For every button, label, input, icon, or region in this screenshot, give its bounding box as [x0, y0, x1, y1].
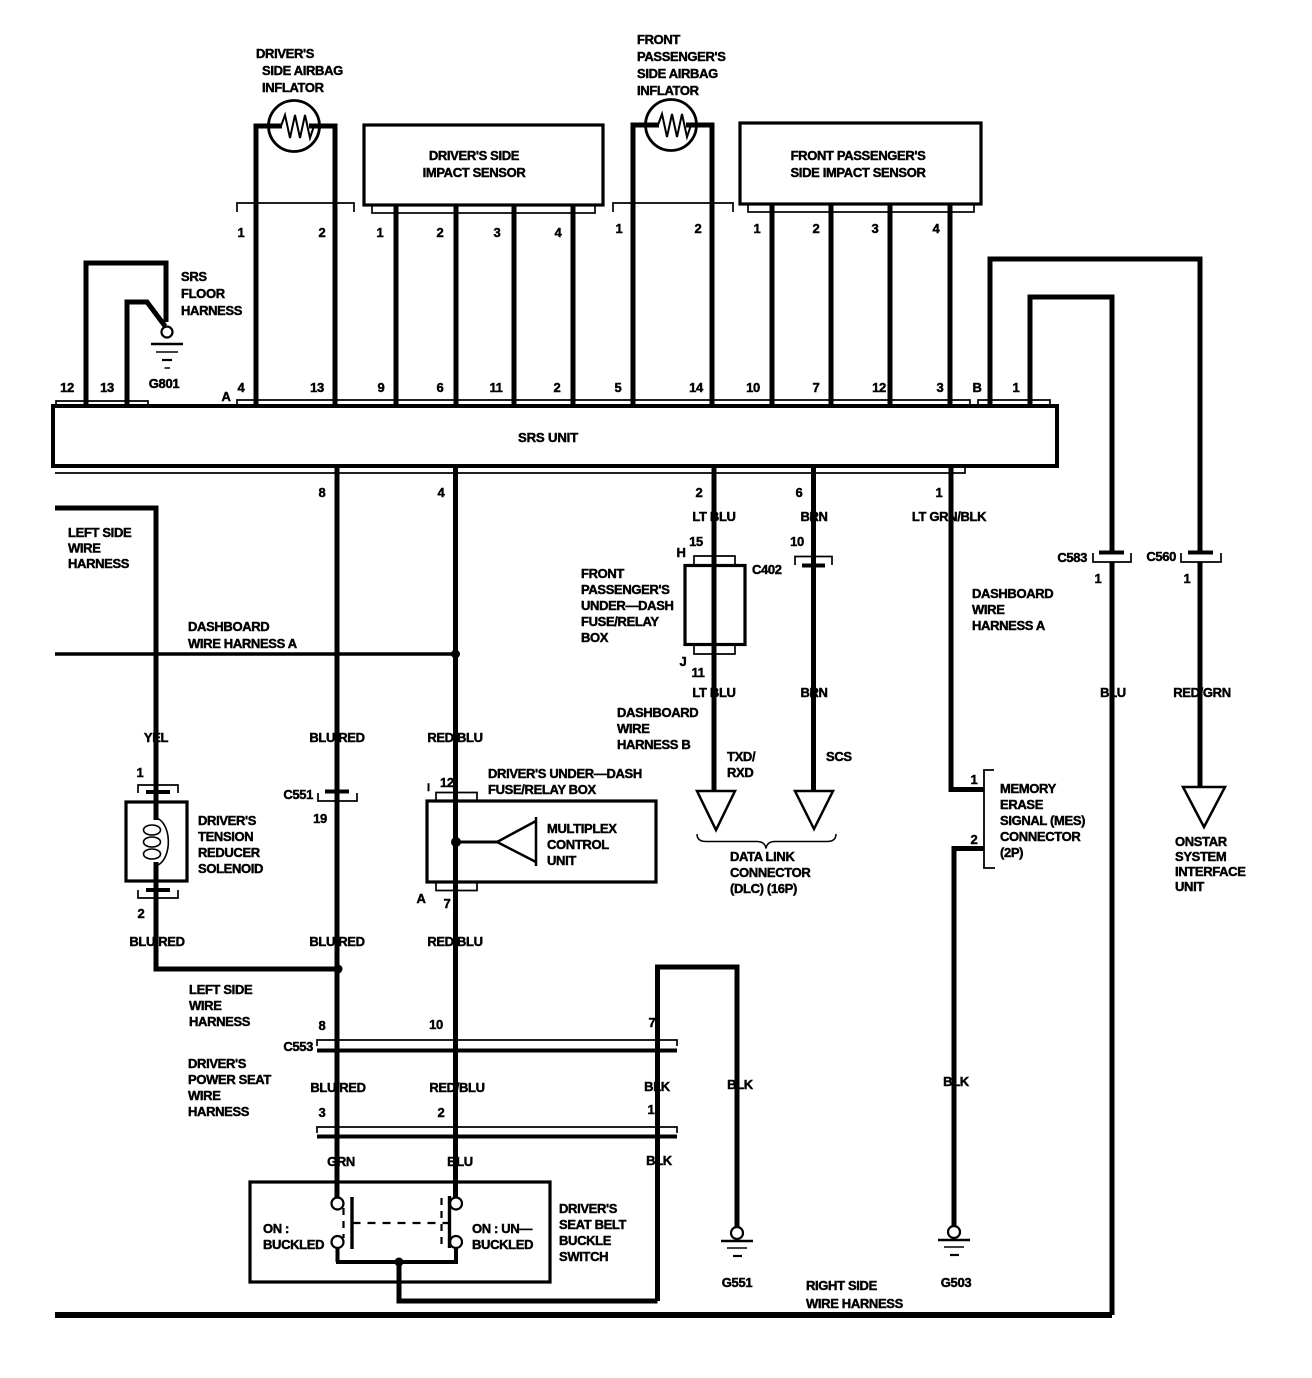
- svg-text:ON :: ON :: [263, 1221, 289, 1236]
- wire sensor pin 2 to SRS pin 6: [454, 205, 459, 406]
- svg-text:BLU: BLU: [1100, 685, 1126, 700]
- svg-text:HARNESS B: HARNESS B: [617, 737, 690, 752]
- svg-text:LEFT SIDE: LEFT SIDE: [189, 982, 253, 997]
- svg-text:12: 12: [872, 380, 886, 395]
- connector bracket top of driver's fuse box: [436, 793, 477, 802]
- svg-text:1: 1: [377, 225, 384, 240]
- svg-text:C553: C553: [283, 1039, 313, 1054]
- wire multiplex tap: [456, 841, 497, 844]
- svg-text:HARNESS: HARNESS: [188, 1104, 250, 1119]
- svg-text:HARNESS: HARNESS: [181, 303, 243, 318]
- wire SRS pin B up and over to C560 (ONSTAR feed): [990, 259, 1200, 554]
- svg-text:10: 10: [790, 534, 804, 549]
- svg-text:DRIVER'S: DRIVER'S: [256, 46, 315, 61]
- svg-text:1: 1: [754, 221, 761, 236]
- svg-text:CONNECTOR: CONNECTOR: [1000, 829, 1081, 844]
- svg-text:B: B: [972, 380, 981, 395]
- wire left side harness boundary: [55, 508, 156, 793]
- svg-text:G503: G503: [941, 1275, 972, 1290]
- wire fp sensor pin 4 to SRS pin 3: [948, 204, 953, 406]
- svg-text:LT GRN/BLK: LT GRN/BLK: [912, 509, 987, 524]
- svg-text:7: 7: [813, 380, 820, 395]
- connector in BRN wire: [795, 557, 832, 566]
- svg-text:BLU: BLU: [447, 1154, 473, 1169]
- driver's seat belt buckle switch box: [250, 1182, 550, 1282]
- svg-text:REDUCER: REDUCER: [198, 845, 261, 860]
- junction dot BLU/RED at solenoid branch: [334, 965, 343, 974]
- svg-text:HARNESS: HARNESS: [68, 556, 130, 571]
- svg-text:UNIT: UNIT: [547, 853, 576, 868]
- svg-text:SCS: SCS: [826, 749, 852, 764]
- svg-text:HARNESS: HARNESS: [189, 1014, 251, 1029]
- svg-text:BLK: BLK: [727, 1077, 754, 1092]
- driver's under-dash fuse/relay box outline: [427, 801, 656, 882]
- svg-text:RED/BLU: RED/BLU: [427, 934, 482, 949]
- svg-text:4: 4: [933, 221, 941, 236]
- svg-text:RXD: RXD: [727, 765, 753, 780]
- svg-text:INFLATOR: INFLATOR: [262, 80, 325, 95]
- front passenger's side impact sensor box: [740, 123, 981, 204]
- wire BLU from C583 down to bottom border: [1110, 562, 1115, 1315]
- svg-text:FUSE/RELAY BOX: FUSE/RELAY BOX: [488, 782, 596, 797]
- wire fp sensor pin 2 to SRS pin 7: [829, 204, 834, 406]
- svg-text:1: 1: [1095, 571, 1102, 586]
- svg-text:WIRE: WIRE: [68, 541, 101, 556]
- svg-text:WIRE: WIRE: [188, 1088, 221, 1103]
- connector bracket driver's inflator: [237, 203, 354, 212]
- wire bottom border (right side wire harness boundary): [55, 1312, 1112, 1318]
- connector face driver's side impact sensor: [372, 205, 595, 213]
- svg-text:A: A: [416, 891, 426, 906]
- wire SRS pin 2 LT BLU down to DLC TXD/RXD: [712, 466, 717, 791]
- svg-text:RIGHT SIDE: RIGHT SIDE: [806, 1278, 878, 1293]
- svg-text:(DLC) (16P): (DLC) (16P): [730, 881, 797, 896]
- fp under-dash fuse/relay box outline: [685, 566, 745, 645]
- junction dot switch common: [395, 1258, 404, 1267]
- driver's side impact sensor box: [364, 125, 603, 205]
- svg-text:BOX: BOX: [581, 630, 609, 645]
- svg-text:2: 2: [695, 221, 702, 236]
- svg-text:FRONT: FRONT: [637, 32, 680, 47]
- svg-text:BLU/RED: BLU/RED: [309, 934, 364, 949]
- wire sensor pin 1 to SRS pin 9: [394, 205, 399, 406]
- wire MES pin 2 BLK down to G503: [954, 849, 984, 1228]
- multiplex control unit triangle symbol: [497, 821, 536, 862]
- wire SRS pin 4 RED/BLU down to C553 pin 10: [453, 466, 458, 1197]
- svg-text:BUCKLED: BUCKLED: [472, 1237, 533, 1252]
- svg-text:DRIVER'S UNDER—DASH: DRIVER'S UNDER—DASH: [488, 766, 642, 781]
- svg-text:2: 2: [319, 225, 326, 240]
- svg-text:INFLATOR: INFLATOR: [637, 83, 700, 98]
- svg-text:1: 1: [1013, 380, 1020, 395]
- wire SRS pin 1 LT GRN/BLK to MES pin 1: [951, 466, 984, 790]
- svg-text:WIRE HARNESS A: WIRE HARNESS A: [188, 636, 298, 651]
- svg-text:3: 3: [872, 221, 879, 236]
- switch closed contact bar buckled: [350, 1197, 353, 1249]
- brace data link connector: [697, 834, 836, 849]
- inflator squib driver's side (resistor in circle): [269, 101, 320, 152]
- connector A bracket: [237, 400, 970, 406]
- wire fp inflator pin 1 to SRS pin 5: [633, 125, 659, 406]
- solenoid coil: [156, 818, 168, 865]
- svg-text:MULTIPLEX: MULTIPLEX: [547, 821, 617, 836]
- svg-text:C402: C402: [752, 562, 782, 577]
- connector power seat harness: [317, 1127, 677, 1133]
- switch dashed linkage: [342, 1208, 344, 1238]
- svg-text:1: 1: [616, 221, 623, 236]
- svg-text:IMPACT SENSOR: IMPACT SENSOR: [423, 165, 527, 180]
- ground G551: [731, 1227, 743, 1239]
- wire into solenoid: [154, 793, 159, 820]
- svg-text:2: 2: [554, 380, 561, 395]
- svg-text:1: 1: [137, 765, 144, 780]
- connector bracket SRS pins 12 13: [56, 401, 148, 406]
- svg-text:DASHBOARD: DASHBOARD: [188, 619, 269, 634]
- svg-text:11: 11: [489, 380, 502, 395]
- svg-text:BLK: BLK: [943, 1074, 970, 1089]
- svg-text:H: H: [676, 545, 685, 560]
- svg-text:LT BLU: LT BLU: [692, 685, 735, 700]
- wire solenoid down and over to BLU/RED junction: [156, 891, 338, 969]
- wire SRS pin 12 loop to G801: [86, 263, 166, 406]
- svg-text:FRONT PASSENGER'S: FRONT PASSENGER'S: [791, 148, 927, 163]
- switch contact circles BLU side: [450, 1198, 462, 1210]
- svg-text:2: 2: [813, 221, 820, 236]
- wire sensor pin 4 to SRS pin 2: [571, 205, 576, 406]
- svg-text:C551: C551: [283, 787, 313, 802]
- connector bracket bottom of driver's fuse box: [436, 882, 477, 891]
- svg-text:2: 2: [971, 832, 978, 847]
- svg-text:FRONT: FRONT: [581, 566, 624, 581]
- svg-text:CONTROL: CONTROL: [547, 837, 609, 852]
- svg-text:MEMORY: MEMORY: [1000, 781, 1057, 796]
- wire inflator pin 1 to SRS pin 4: [256, 126, 282, 406]
- svg-text:GRN: GRN: [327, 1154, 355, 1169]
- connector B bracket: [978, 400, 1050, 406]
- solenoid DRIVER'S TENSION REDUCER box: [126, 802, 187, 881]
- svg-text:SYSTEM: SYSTEM: [1175, 849, 1226, 864]
- svg-text:2: 2: [138, 906, 145, 921]
- switch contact bar unbuckled: [448, 1196, 451, 1248]
- svg-text:POWER SEAT: POWER SEAT: [188, 1072, 271, 1087]
- svg-text:6: 6: [437, 380, 444, 395]
- svg-text:WIRE: WIRE: [617, 721, 650, 736]
- svg-text:J: J: [680, 654, 687, 669]
- svg-text:ERASE: ERASE: [1000, 797, 1044, 812]
- svg-text:LT BLU: LT BLU: [692, 509, 735, 524]
- svg-text:BLU/RED: BLU/RED: [310, 1080, 365, 1095]
- svg-text:WIRE: WIRE: [972, 602, 1005, 617]
- connector bracket top of fp fuse box: [694, 556, 735, 566]
- svg-text:15: 15: [689, 534, 703, 549]
- wire RED/GRN from C560 to ONSTAR: [1198, 562, 1203, 787]
- svg-text:C560: C560: [1146, 549, 1176, 564]
- svg-text:8: 8: [319, 485, 326, 500]
- switch contact circles GRN side: [332, 1198, 344, 1210]
- svg-text:PASSENGER'S: PASSENGER'S: [581, 582, 670, 597]
- ground G503: [948, 1226, 960, 1238]
- memory erase signal connector bracket: [984, 770, 995, 868]
- svg-text:SIDE AIRBAG: SIDE AIRBAG: [262, 63, 343, 78]
- svg-text:SIDE AIRBAG: SIDE AIRBAG: [637, 66, 718, 81]
- svg-text:SIDE IMPACT SENSOR: SIDE IMPACT SENSOR: [790, 165, 926, 180]
- svg-text:TENSION: TENSION: [198, 829, 253, 844]
- wire SRS pin 13 loop to G801: [127, 302, 165, 406]
- svg-text:SRS UNIT: SRS UNIT: [518, 430, 578, 445]
- svg-text:C583: C583: [1057, 550, 1087, 565]
- svg-text:DASHBOARD: DASHBOARD: [617, 705, 698, 720]
- svg-text:1: 1: [1184, 571, 1191, 586]
- svg-text:BLU/RED: BLU/RED: [309, 730, 364, 745]
- svg-text:FLOOR: FLOOR: [181, 286, 226, 301]
- svg-text:12: 12: [440, 775, 454, 790]
- svg-text:4: 4: [238, 380, 246, 395]
- svg-text:TXD/: TXD/: [727, 749, 756, 764]
- wire inflator pin 2 to SRS pin 13: [309, 126, 335, 406]
- connector solenoid pin 1: [138, 785, 178, 793]
- svg-text:2: 2: [696, 485, 703, 500]
- wire sensor pin 3 to SRS pin 11: [512, 205, 517, 406]
- SRS unit bottom connector face: [55, 466, 965, 473]
- svg-text:2: 2: [438, 1105, 445, 1120]
- svg-text:G801: G801: [149, 376, 180, 391]
- svg-text:1: 1: [238, 225, 245, 240]
- svg-text:ONSTAR: ONSTAR: [1175, 834, 1228, 849]
- svg-text:7: 7: [649, 1015, 656, 1030]
- svg-text:YEL: YEL: [144, 730, 169, 745]
- connector solenoid pin 2: [146, 888, 170, 892]
- svg-text:5: 5: [615, 380, 622, 395]
- svg-text:7: 7: [444, 896, 451, 911]
- svg-text:12: 12: [60, 380, 74, 395]
- wire BLK from C553 pin 7 up over to G551: [658, 967, 738, 1301]
- inflator squib front passenger (resistor in circle): [646, 100, 697, 151]
- svg-text:DATA LINK: DATA LINK: [730, 849, 795, 864]
- svg-text:INTERFACE: INTERFACE: [1175, 864, 1246, 879]
- svg-text:SWITCH: SWITCH: [559, 1249, 608, 1264]
- svg-text:4: 4: [555, 225, 563, 240]
- DLC terminal triangle SCS: [795, 791, 833, 829]
- svg-text:BUCKLED: BUCKLED: [263, 1237, 324, 1252]
- svg-text:UNDER—DASH: UNDER—DASH: [581, 598, 674, 613]
- svg-text:11: 11: [691, 665, 704, 680]
- wire SRS pin 8 BLU/RED down to C553 pin 8: [335, 466, 340, 1197]
- svg-text:RED/BLU: RED/BLU: [427, 730, 482, 745]
- wire out of solenoid: [154, 862, 159, 889]
- wire fp sensor pin 3 to SRS pin 12: [888, 204, 893, 406]
- svg-text:ON : UN—: ON : UN—: [472, 1221, 532, 1236]
- svg-text:SOLENOID: SOLENOID: [198, 861, 263, 876]
- junction dashboard harness line at RED/BLU wire: [451, 650, 460, 659]
- wire switch common to BLK: [336, 1248, 458, 1262]
- svg-text:LEFT SIDE: LEFT SIDE: [68, 525, 132, 540]
- connector face fp impact sensor: [748, 204, 974, 212]
- svg-text:1: 1: [971, 772, 978, 787]
- connector bracket bottom of fp fuse box: [694, 645, 735, 655]
- SRS unit box: [53, 406, 1057, 466]
- svg-text:13: 13: [100, 380, 114, 395]
- svg-text:BRN: BRN: [800, 685, 827, 700]
- svg-text:CONNECTOR: CONNECTOR: [730, 865, 811, 880]
- svg-text:13: 13: [310, 380, 324, 395]
- svg-text:19: 19: [313, 811, 327, 826]
- svg-text:WIRE HARNESS: WIRE HARNESS: [806, 1296, 904, 1311]
- svg-text:RED/BLU: RED/BLU: [429, 1080, 484, 1095]
- svg-text:SRS: SRS: [181, 269, 207, 284]
- svg-text:SEAT BELT: SEAT BELT: [559, 1217, 627, 1232]
- svg-text:DRIVER'S SIDE: DRIVER'S SIDE: [429, 148, 520, 163]
- connector bracket fp inflator: [613, 203, 733, 212]
- junction dot multiplex tap: [451, 837, 461, 847]
- svg-text:DRIVER'S: DRIVER'S: [188, 1056, 247, 1071]
- svg-text:HARNESS A: HARNESS A: [972, 618, 1046, 633]
- svg-text:RED/GRN: RED/GRN: [1173, 685, 1231, 700]
- svg-text:(2P): (2P): [1000, 845, 1023, 860]
- svg-text:DASHBOARD: DASHBOARD: [972, 586, 1053, 601]
- wire fp inflator pin 2 to SRS pin 14: [686, 125, 712, 406]
- svg-text:2: 2: [437, 225, 444, 240]
- svg-text:UNIT: UNIT: [1175, 879, 1204, 894]
- svg-text:A: A: [221, 389, 231, 404]
- svg-text:4: 4: [438, 485, 446, 500]
- svg-text:8: 8: [319, 1018, 326, 1033]
- svg-text:DRIVER'S: DRIVER'S: [198, 813, 257, 828]
- svg-text:3: 3: [319, 1105, 326, 1120]
- svg-text:10: 10: [429, 1017, 443, 1032]
- svg-text:FUSE/RELAY: FUSE/RELAY: [581, 614, 659, 629]
- svg-text:3: 3: [937, 380, 944, 395]
- svg-text:BUCKLE: BUCKLE: [559, 1233, 612, 1248]
- svg-text:BRN: BRN: [800, 509, 827, 524]
- svg-text:6: 6: [796, 485, 803, 500]
- wire dashboard harness A boundary line: [55, 652, 456, 656]
- svg-text:1: 1: [936, 485, 943, 500]
- wire SRS pin 1 up and over to C583 (BLU feed): [1030, 297, 1112, 554]
- svg-text:I: I: [427, 782, 430, 794]
- svg-text:DRIVER'S: DRIVER'S: [559, 1201, 618, 1216]
- svg-text:1: 1: [648, 1102, 655, 1117]
- svg-text:14: 14: [689, 380, 704, 395]
- svg-text:9: 9: [378, 380, 385, 395]
- svg-text:10: 10: [746, 380, 760, 395]
- svg-text:PASSENGER'S: PASSENGER'S: [637, 49, 726, 64]
- svg-text:G551: G551: [722, 1275, 753, 1290]
- wire fp sensor pin 1 to SRS pin 10: [770, 204, 775, 406]
- ground G801: [162, 327, 173, 338]
- svg-text:WIRE: WIRE: [189, 998, 222, 1013]
- svg-text:3: 3: [494, 225, 501, 240]
- ONSTAR terminal triangle: [1183, 787, 1225, 827]
- DLC terminal triangle TXD/RXD: [697, 791, 735, 830]
- wire SRS pin 6 BRN down to DLC SCS: [811, 466, 816, 791]
- svg-text:SIGNAL (MES): SIGNAL (MES): [1000, 813, 1085, 828]
